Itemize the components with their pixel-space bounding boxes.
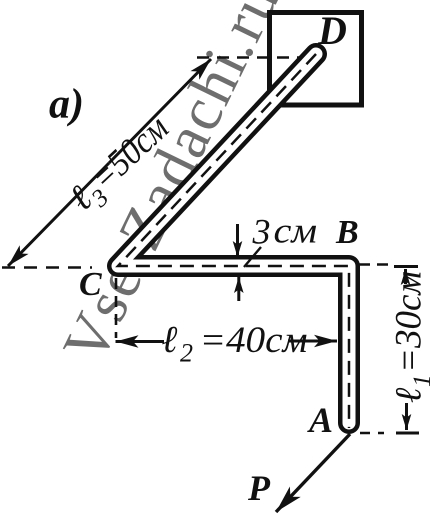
3cm label [252,211,318,251]
rod D-C-B-A : outline [118,54,349,423]
support square [270,13,362,106]
svg-text:а): а) [49,82,84,128]
l1 dimension bottom tick [396,432,419,435]
svg-text:A: A [307,400,333,440]
dashed line right of A [360,432,384,435]
l3 dimension arrow upper half [109,59,211,163]
3cm leader line [244,247,261,267]
rod white core [118,54,349,423]
l2 label [162,319,308,368]
l3 dimension arrow lower half [8,163,109,266]
l1 dimension top tick [394,265,418,268]
svg-text:B: B [335,214,359,251]
svg-text:1: 1 [409,375,435,388]
svg-text:P: P [247,468,271,508]
svg-text:D: D [317,8,347,53]
svg-text:ℓ: ℓ [389,387,430,403]
vertical dashed line below C [115,278,118,338]
svg-text:=40см: =40см [200,320,308,361]
svg-text:C: C [79,266,102,303]
P force arrow [276,434,350,512]
svg-text:2: 2 [180,339,193,368]
l3 label [61,107,181,224]
dashed line through D [197,56,306,59]
l2 dimension right arrow [288,340,337,343]
l1 top arrow [404,269,407,284]
svg-text:3: 3 [252,212,271,252]
3cm bottom arrow [237,277,240,301]
svg-text:=30см: =30см [389,271,430,373]
l2 dimension left arrow [116,340,165,343]
rod dashed centerline [118,54,349,428]
l1 bottom arrow [405,403,408,430]
dashed line left of C [2,266,92,269]
3cm top arrow [236,224,239,257]
svg-text:ℓ: ℓ [162,319,178,361]
dashed line right of B [359,263,388,266]
svg-text:см: см [274,211,318,251]
l1 label rotated [389,271,435,403]
